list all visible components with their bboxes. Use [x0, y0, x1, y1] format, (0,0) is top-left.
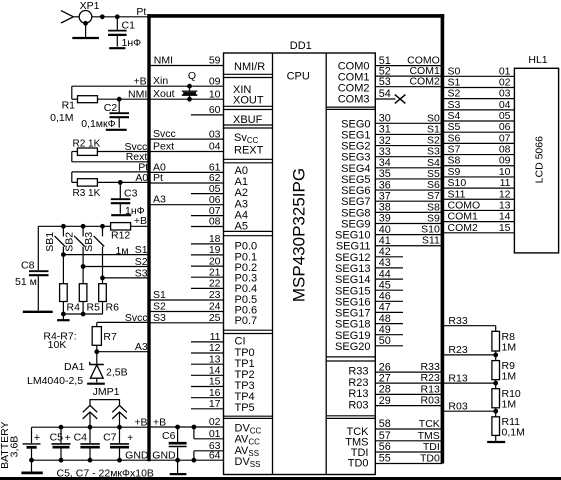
capacitor C4: [74, 427, 100, 460]
DD1 pin-name A5: [235, 221, 248, 233]
wire S7 to HL1 pin 08: [442, 144, 514, 156]
wire S6 to HL1 pin 07: [442, 132, 514, 144]
svg-text:14: 14: [209, 365, 221, 377]
svg-text:R13: R13: [421, 383, 440, 395]
svg-text:23: 23: [209, 289, 221, 301]
svg-text:COM2: COM2: [409, 76, 439, 88]
svg-text:XBUF: XBUF: [233, 114, 263, 126]
DD1 left column group dividers: [224, 74, 273, 418]
wire NMI from R1 to bus: [98, 97, 150, 102]
svg-text:NMI: NMI: [154, 55, 173, 67]
DD1 pin-name P0.1: [235, 251, 258, 263]
svg-text:19: 19: [209, 244, 221, 256]
svg-text:C8: C8: [21, 260, 35, 272]
wire Xin pin 09: [149, 75, 224, 87]
wire S1 pin 31: [375, 123, 442, 135]
wire common bottom of R4-R6: [61, 312, 103, 317]
node +B label (row R12): [134, 215, 147, 227]
DD1 pin-name A3: [235, 198, 248, 210]
svg-text:TP5: TP5: [235, 402, 255, 414]
ground at R4: [57, 314, 70, 320]
wire S7 pin 37: [375, 190, 442, 202]
capacitor C5: [50, 427, 71, 460]
svg-text:R7: R7: [103, 331, 117, 343]
capacitor C8: [21, 260, 49, 311]
DD1 pin-name SEG10: [335, 230, 370, 242]
wire S1 to HL1 pin 02: [442, 76, 514, 88]
svg-text:51 м: 51 м: [15, 276, 37, 288]
svg-text:MSP430P325IPG: MSP430P325IPG: [289, 168, 308, 302]
svg-text:57: 57: [379, 430, 391, 442]
svg-text:R03: R03: [448, 401, 467, 413]
wire pin 01 number: [209, 428, 221, 440]
svg-text:COM2: COM2: [448, 222, 478, 234]
svg-text:GND: GND: [125, 449, 149, 461]
node A3 label (left of bus): [135, 341, 148, 353]
wire TD0 pin 55: [375, 453, 442, 465]
DD1 pin-name TP3: [235, 380, 255, 392]
svg-text:+B: +B: [134, 215, 147, 227]
node NMI label (left of bus): [128, 89, 147, 101]
wire +B rail to C8: [38, 224, 105, 270]
DD1 pin-name TDI: [351, 447, 369, 459]
DD1 pin-name SEG3: [341, 152, 370, 164]
DD1 pin-name AVSS: [235, 445, 260, 458]
value label 0,1M for R1: [50, 112, 73, 124]
DD1 pin-name SEG18: [335, 319, 370, 331]
svg-text:R13: R13: [448, 372, 467, 384]
svg-text:1нФ: 1нФ: [122, 37, 142, 49]
svg-text:2,5В: 2,5В: [106, 367, 128, 379]
svg-text:TMS: TMS: [418, 430, 440, 442]
svg-text:P0.7: P0.7: [235, 315, 258, 327]
wire S9 pin 39: [375, 212, 442, 224]
svg-text:1M: 1M: [502, 341, 517, 353]
wire TCK pin 58: [375, 418, 442, 430]
value label R4-R7: 10K: [43, 331, 76, 351]
svg-text:Svcc: Svcc: [125, 312, 148, 324]
wire R23 to ladder: [442, 344, 498, 357]
svg-text:+B: +B: [153, 416, 166, 428]
node GND label (left of bus): [125, 449, 149, 461]
wire stub pin 19: [191, 244, 224, 256]
node S1 label (left of bus): [135, 244, 148, 256]
svg-text:S11: S11: [422, 235, 440, 247]
value note C5, C7 - 22мкФх10В: [57, 468, 154, 480]
svg-text:R13: R13: [348, 388, 368, 400]
wire A3 from R7 to bus: [94, 349, 149, 354]
wire stub pin 08: [191, 216, 224, 228]
svg-text:A3: A3: [135, 341, 148, 353]
wire stub pin 48: [375, 313, 403, 325]
svg-text:TDI: TDI: [423, 441, 440, 453]
svg-text:S3: S3: [153, 312, 166, 324]
value label 1нФ for C1: [122, 37, 142, 49]
wire S3 from SB3 to bus: [100, 276, 149, 281]
resistor R2: [72, 148, 149, 162]
ground at C6: [170, 460, 187, 474]
svg-text:A5: A5: [235, 221, 248, 233]
value label LM4040-2,5: [27, 375, 83, 387]
wire Xout row to crystal: [187, 97, 192, 102]
label DD1: [290, 40, 312, 52]
wire Pt pin 62: [149, 172, 224, 184]
svg-text:17: 17: [209, 398, 221, 410]
wire stub pin 11: [191, 331, 224, 343]
wire S2 to HL1 pin 03: [442, 88, 514, 100]
op-amp: IC DD1 MSP430P325IPG outline: [224, 53, 376, 475]
wire R03 pin 29: [375, 395, 442, 407]
svg-text:0,1мкФ: 0,1мкФ: [81, 118, 115, 130]
svg-text:55: 55: [379, 453, 391, 465]
ground at R11: [487, 441, 505, 443]
DD1 pin-name R03: [348, 399, 368, 411]
svg-text:02: 02: [209, 416, 221, 428]
DD1 pin-name TP4: [235, 391, 255, 403]
DD1 pin-name COM0: [338, 61, 370, 73]
node S3 label (left of bus): [135, 267, 148, 279]
resistor R8: [492, 331, 516, 355]
wire S10 to HL1 pin 11: [442, 177, 514, 189]
DD1 pin-name SvCC: [234, 132, 259, 145]
svg-text:04: 04: [209, 141, 221, 153]
svg-text:09: 09: [209, 75, 221, 87]
svg-text:Xin: Xin: [153, 75, 168, 87]
wire S0 pin 30: [375, 112, 442, 124]
DD1 pin-name TCK: [347, 426, 370, 438]
svg-text:R3 1K: R3 1K: [73, 188, 101, 199]
label BATTERY: [0, 421, 11, 468]
svg-text:TD0: TD0: [420, 453, 440, 465]
DD1 pin-name P0.3: [235, 273, 258, 285]
DD1 pin-name COM3: [338, 94, 370, 106]
svg-text:28: 28: [379, 384, 391, 396]
wire S8 pin 38: [375, 201, 442, 213]
capacitor C1: [108, 17, 135, 47]
wire S2 pin 32: [375, 135, 442, 147]
svg-text:LM4040-2,5: LM4040-2,5: [27, 375, 83, 387]
wire stub pin 42: [375, 246, 403, 258]
svg-text:R33: R33: [448, 315, 467, 327]
wire +B rail bottom left: [32, 425, 150, 430]
svg-text:15: 15: [499, 222, 511, 234]
node S2 label (left of bus): [135, 256, 148, 268]
wire COM1 pin 52: [375, 65, 442, 77]
svg-text:22: 22: [209, 278, 221, 290]
node GND label (right of bus): [152, 450, 176, 462]
DD1 pin-name XOUT: [233, 95, 264, 107]
svg-text:GND: GND: [152, 450, 176, 462]
wire S11 pin 41: [375, 235, 442, 247]
svg-text:SB2: SB2: [64, 232, 76, 252]
wire +B to R1: [72, 86, 149, 99]
DD1 pin-name SEG19: [335, 330, 370, 342]
wire S6 pin 36: [375, 179, 442, 191]
svg-text:Xout: Xout: [153, 88, 175, 100]
svg-text:54: 54: [379, 88, 391, 100]
DD1 pin-name P0.0: [235, 241, 258, 253]
wire S10 pin 40: [375, 224, 442, 236]
DD1 pin-name R33: [348, 366, 368, 378]
svg-text:R23: R23: [448, 344, 467, 356]
wire R13 to ladder: [442, 372, 498, 385]
wire Xin row to crystal: [187, 84, 192, 89]
svg-text:50: 50: [379, 335, 391, 347]
wire S4 pin 34: [375, 157, 442, 169]
node Rext label: [126, 151, 148, 163]
zener diode DA1 LM4040-2,5: [64, 352, 128, 383]
wire stub pin 17: [191, 398, 224, 410]
wire S3 to HL1 pin 04: [442, 99, 514, 111]
DD1 pin-name SEG11: [336, 241, 371, 253]
svg-text:HL1: HL1: [528, 54, 547, 66]
DD1 pin-name SEG2: [341, 141, 370, 153]
svg-text:29: 29: [379, 395, 391, 407]
DD1 pin-name P0.7: [235, 315, 258, 327]
wire S4 to HL1 pin 05: [442, 110, 514, 122]
wire S0 to HL1 pin 01: [442, 65, 514, 77]
DD1 pin-name SEG7: [341, 196, 370, 208]
wire stub pin 13: [191, 353, 224, 365]
ground at battery: [21, 458, 42, 473]
wire S5 to HL1 pin 06: [442, 121, 514, 133]
DD1 pin-name NMI/R: [234, 61, 265, 73]
DD1 pin-name P0.5: [235, 294, 258, 306]
no-connect X mark at pin 54: [395, 95, 406, 104]
value label R3 1K: [73, 188, 101, 199]
wire COM2 to HL1 pin 15: [442, 222, 514, 234]
battery GB1 3,6V: [23, 427, 41, 460]
DD1 pin-name SEG17: [335, 308, 370, 320]
DD1 pin-name COM1: [338, 72, 370, 84]
svg-text:+B: +B: [134, 417, 147, 429]
svg-text:DA1: DA1: [64, 361, 85, 373]
svg-text:1м: 1м: [116, 245, 129, 257]
DD1 pin-name A2: [235, 187, 248, 199]
DD1 pin-name A4: [235, 209, 248, 221]
svg-text:0,1M: 0,1M: [502, 426, 525, 438]
svg-text:SB1: SB1: [44, 232, 56, 252]
wire COM1 to HL1 pin 14: [442, 211, 514, 223]
wire Svcc pin 03: [149, 128, 224, 140]
jumper JMP1: [83, 386, 127, 427]
wire stub pin 05: [191, 183, 224, 195]
svg-text:S3: S3: [135, 267, 148, 279]
DD1 pin-name SEG15: [335, 285, 370, 297]
svg-text:TD0: TD0: [348, 458, 369, 470]
wire stub pin 44: [375, 268, 403, 280]
wire stub pin 45: [375, 279, 403, 291]
svg-text:12: 12: [209, 342, 221, 354]
wire R33 pin 26: [375, 361, 442, 373]
svg-text:0,1M: 0,1M: [50, 112, 73, 124]
svg-text:05: 05: [209, 183, 221, 195]
wire COMO to HL1 pin 13: [442, 199, 514, 211]
svg-text:JMP1: JMP1: [93, 386, 120, 398]
resistor R3: [77, 179, 149, 186]
wire S3 pin 25: [149, 312, 224, 324]
wire S2 from SB2 to bus: [81, 264, 149, 269]
wire A3 pin 06: [149, 194, 224, 206]
resistor R5: [79, 267, 100, 315]
svg-text:27: 27: [379, 372, 391, 384]
svg-text:XOUT: XOUT: [233, 95, 264, 107]
node A0 label (left of bus): [135, 172, 148, 184]
DD1 pin-name A1: [235, 176, 248, 188]
DD1 pin-name P0.2: [235, 262, 258, 274]
svg-text:C2: C2: [104, 102, 118, 114]
svg-text:C7: C7: [103, 432, 117, 444]
wire S8 to HL1 pin 09: [442, 155, 514, 167]
wire S11 to HL1 pin 12: [442, 188, 514, 200]
capacitor C7: [103, 427, 133, 460]
wire S9 to HL1 pin 10: [442, 166, 514, 178]
resistor R10: [492, 383, 521, 411]
resistor R6: [99, 278, 119, 314]
svg-text:1M: 1M: [502, 398, 517, 410]
ground at XP1: [72, 21, 99, 38]
svg-text:R33: R33: [348, 366, 368, 378]
switch SB1: [44, 226, 65, 254]
svg-text:25: 25: [209, 312, 221, 324]
wire R23 pin 27: [375, 372, 442, 384]
DD1 pin-name R13: [348, 388, 368, 400]
svg-text:SB3: SB3: [83, 232, 95, 252]
svg-text:R03: R03: [348, 399, 368, 411]
wire GND pin 64 number: [209, 449, 221, 461]
DD1 pin-name TP5: [235, 402, 255, 414]
resistor R11: [492, 411, 525, 441]
DD1 pin-name SEG0: [341, 118, 370, 130]
wire pin 63 number: [209, 440, 221, 452]
DD1 pin-name COM2: [338, 83, 370, 95]
wire stub pin 12: [191, 342, 224, 354]
svg-text:C1: C1: [122, 19, 136, 31]
svg-text:Pt: Pt: [136, 6, 146, 18]
resistor R9: [492, 355, 516, 383]
wire R33 to ladder: [442, 315, 495, 331]
label HL1: [528, 54, 547, 66]
wire stub pin 14: [191, 365, 224, 377]
value label 1м for R12: [116, 245, 129, 257]
svg-text:+: +: [34, 432, 40, 444]
svg-text:S2: S2: [135, 256, 148, 268]
DD1 pin-name SEG16: [335, 296, 370, 308]
svg-text:01: 01: [209, 428, 221, 440]
svg-text:60: 60: [209, 104, 221, 116]
DD1 pin-name SEG9: [341, 218, 370, 230]
DD1 pin-name AVCC: [235, 434, 261, 447]
svg-text:Svcc: Svcc: [153, 128, 176, 140]
value label 0,1мкФ for C2: [81, 118, 115, 130]
svg-text:R03: R03: [421, 395, 440, 407]
svg-text:S1: S1: [135, 244, 148, 256]
DD1 pin-name SEG5: [341, 174, 370, 186]
svg-text:A3: A3: [153, 194, 166, 206]
svg-text:3,6В: 3,6В: [8, 436, 20, 458]
svg-text:+: +: [127, 433, 133, 444]
DD1 pin-name TP2: [235, 369, 255, 381]
DD1 pin-name XBUF: [233, 114, 263, 126]
wire Pt from XP1 to bus: [92, 14, 149, 19]
wire COM2 pin 53: [375, 76, 442, 88]
wire Pext pin 04: [149, 141, 224, 153]
DD1 pin-name A0: [235, 165, 248, 177]
wire GND to pin 64: [149, 458, 224, 463]
DD1 pin-name SEG14: [335, 274, 370, 286]
resistor R4: [60, 255, 80, 314]
svg-text:R12: R12: [111, 230, 130, 242]
wire bus right vertical: [441, 14, 445, 463]
svg-text:15: 15: [209, 376, 221, 388]
crystal Q: [182, 70, 198, 99]
wire stub pin 43: [375, 257, 403, 269]
wire S3 pin 33: [375, 146, 442, 158]
DD1 pin-name SEG13: [335, 263, 370, 275]
svg-text:64: 64: [209, 449, 221, 461]
frame bottom line: [0, 477, 561, 480]
DD1 pin-name DVCC: [235, 422, 262, 435]
wire stub pin 22: [191, 278, 224, 290]
value label 3,6В: [8, 436, 20, 458]
wire pin 01 stub to +B: [194, 427, 224, 439]
node Svcc label (left of bus, R7 row): [125, 312, 148, 324]
svg-text:56: 56: [379, 441, 391, 453]
svg-text:58: 58: [379, 418, 391, 430]
svg-text:R23: R23: [421, 372, 440, 384]
resistor R1: [62, 96, 98, 112]
DD1 pin-name P0.4: [235, 283, 258, 295]
svg-text:24: 24: [209, 301, 221, 313]
svg-text:10: 10: [209, 88, 221, 100]
wire S2 pin 24: [149, 301, 224, 313]
wire S5 pin 35: [375, 168, 442, 180]
svg-text:TCK: TCK: [419, 418, 440, 430]
capacitor C3: [111, 182, 138, 213]
connector XP1: [61, 0, 100, 23]
svg-text:43: 43: [379, 257, 391, 269]
svg-text:10K: 10K: [48, 339, 67, 351]
wire S1 from SB1 to bus: [61, 252, 149, 257]
wire R03 to ladder: [442, 401, 498, 414]
ground at C3: [111, 214, 131, 216]
label CPU: [287, 70, 310, 82]
DD1 pin-name TP1: [235, 358, 255, 370]
ground at C8: [23, 311, 53, 313]
wire A0 pin 61: [149, 161, 224, 173]
svg-text:+B: +B: [133, 75, 146, 87]
svg-text:47: 47: [379, 302, 391, 314]
svg-text:COM3: COM3: [338, 94, 370, 106]
switch SB3: [83, 226, 104, 278]
wire stub pin 49: [375, 324, 403, 336]
svg-text:A0: A0: [135, 172, 148, 184]
wire pin 54 not connected: [375, 88, 395, 100]
svg-text:S1: S1: [153, 289, 166, 301]
wire Svcc to R7: [97, 322, 149, 326]
wire COMO pin 51: [375, 55, 442, 67]
svg-text:R23: R23: [348, 377, 368, 389]
wire stub pin 47: [375, 302, 403, 314]
DD1 pin-name SEG8: [341, 207, 370, 219]
wire +B pin 02 number: [209, 416, 221, 428]
DD1 pin-name P0.6: [235, 304, 258, 316]
resistor R12: [103, 223, 150, 242]
node Pt label: [136, 6, 146, 18]
svg-text:R4: R4: [67, 302, 81, 314]
wire S1 pin 23: [149, 289, 224, 301]
DD1 pin-name SEG12: [335, 252, 370, 264]
